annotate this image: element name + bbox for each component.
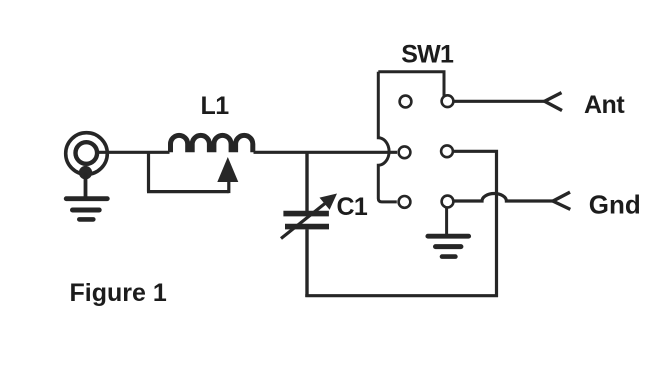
svg-text:L1: L1	[201, 92, 230, 120]
wiper arrow of L1	[217, 157, 238, 182]
wire: tap bottom run	[147, 190, 229, 193]
wire: bottom return run to SW1	[305, 294, 498, 297]
ground (connector side)	[66, 199, 107, 220]
wire: L1 to SW1 pole contact	[254, 151, 398, 154]
capacitor C1 variable arrow head	[320, 194, 338, 210]
wire: row3-right down to ground	[445, 208, 448, 235]
capacitor C1 variable arrow shaft	[281, 202, 327, 238]
ground (SW1 side)	[428, 236, 469, 256]
SW1 contact row2 left (pole)	[399, 146, 411, 158]
svg-text:C1: C1	[337, 193, 368, 221]
SW1 contact row3 left	[399, 196, 411, 208]
Ant terminal chevron	[545, 93, 562, 111]
capacitor C1 bottom plate	[285, 224, 329, 230]
wire: row3-right to Gnd terminal with hop over vertical	[454, 194, 553, 201]
wire: tap drop from main line (node at x=149.7)	[147, 152, 150, 191]
wire: tap riser to wiper arrow	[227, 178, 230, 193]
SW1 contact row3 right	[442, 196, 454, 208]
wire: connector pin to inductor L1	[97, 151, 170, 154]
wire: connector shell down to ground	[84, 173, 88, 198]
inductor L1	[171, 135, 253, 152]
wire: SW1 strap left vertical with hop over pole wire	[378, 72, 397, 202]
coax connector J1 center pin	[76, 142, 98, 164]
wire: SW1 strap top (row1-right to frame)	[378, 72, 444, 96]
wire: row1-right to Ant terminal	[455, 100, 545, 103]
capacitor C1 top plate	[283, 211, 329, 217]
wire: row2-right to bottom return	[454, 151, 497, 297]
junction dot on connector shell	[79, 166, 92, 179]
Gnd terminal chevron	[553, 192, 570, 209]
svg-text:Figure 1: Figure 1	[70, 279, 167, 307]
wire: C1 bottom plate down	[305, 229, 308, 297]
wire: main node down to C1 top plate	[305, 152, 308, 211]
coax connector J1 outer shell	[66, 133, 108, 175]
svg-text:Ant: Ant	[584, 91, 625, 119]
SW1 contact row1 left (NC)	[400, 96, 412, 108]
SW1 contact row2 right	[441, 145, 453, 157]
svg-text:SW1: SW1	[401, 40, 454, 68]
SW1 contact row1 right	[442, 95, 454, 107]
svg-text:Gnd: Gnd	[589, 189, 641, 219]
